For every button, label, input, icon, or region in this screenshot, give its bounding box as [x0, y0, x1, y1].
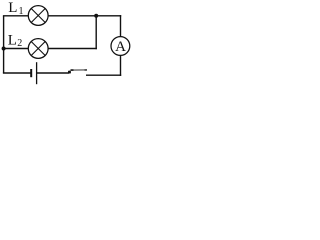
- wire L2 branch left: [3, 48, 28, 50]
- lamp L2: [28, 39, 48, 59]
- wire bottom left corner to battery: [3, 72, 31, 74]
- battery: [31, 62, 36, 84]
- svg-text:L: L: [8, 0, 17, 16]
- wire bottom right to switch: [86, 74, 121, 76]
- switch S: [68, 70, 87, 74]
- wire right vertical down to ammeter: [120, 15, 122, 37]
- node junction top: [94, 14, 98, 18]
- label L2: [8, 32, 22, 49]
- label L1: [8, 0, 23, 17]
- svg-text:2: 2: [17, 38, 22, 49]
- wire from ammeter down: [120, 55, 122, 76]
- wire left vertical: [3, 16, 5, 73]
- lamp L1: [28, 6, 48, 26]
- svg-text:A: A: [115, 39, 126, 55]
- svg-text:L: L: [8, 32, 17, 48]
- wire top to lamp L1: [3, 15, 29, 17]
- ammeter A: [111, 37, 130, 56]
- wire bottom left battery to switch: [37, 72, 69, 74]
- wire top from lamp L1 to right corner: [48, 15, 121, 17]
- wire right vertical L2 return up to junction: [95, 16, 97, 49]
- wire from lamp L2 to right: [48, 48, 97, 50]
- node junction left: [2, 47, 6, 51]
- svg-text:1: 1: [19, 6, 24, 17]
